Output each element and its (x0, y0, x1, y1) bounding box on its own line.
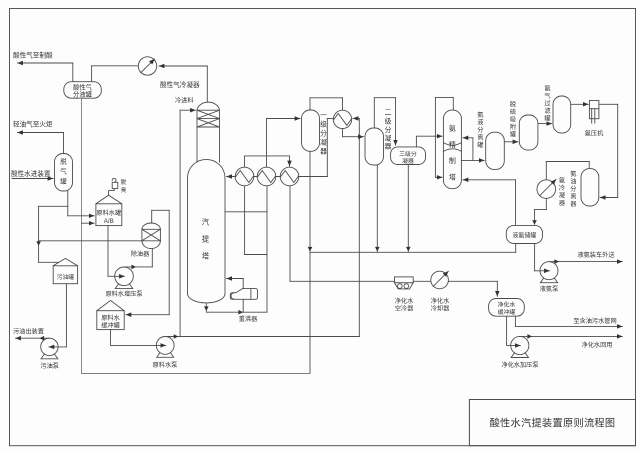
wire: exchanger row reflux line into tower (227, 176, 328, 178)
arrow: bottoms line flow right (238, 310, 243, 315)
wire: 1st stage vessel drain to condensate header (309, 151, 311, 373)
wire: condenser circle drain to 2nd stage vessel (342, 129, 344, 137)
svg-text:污油泵: 污油泵 (40, 362, 59, 370)
tower packing section with X bands (196, 110, 198, 162)
svg-text:净化水: 净化水 (395, 297, 414, 305)
wire: exchanger1 top loop to exchanger3 (244, 156, 246, 167)
raw water booster pump 原料水增压泵 (115, 267, 134, 286)
wire: exchanger2 top to 1st stage condenser vessel (266, 119, 268, 168)
svg-text:冷却器: 冷却器 (431, 304, 450, 312)
wire: condensate header (310, 251, 516, 253)
arrow: pump discharge (174, 334, 179, 339)
svg-text:缓冲罐: 缓冲罐 (101, 322, 120, 330)
svg-text:凝: 凝 (385, 134, 392, 143)
svg-text:缓冲罐: 缓冲罐 (498, 308, 516, 316)
ammonia liquid separator 氨液分离罐 (486, 132, 505, 169)
svg-text:分: 分 (477, 126, 483, 134)
wire: dirty oil out 污油出装置 (16, 337, 50, 339)
ammonia oil separator 氨油分离器 (581, 169, 599, 206)
raw water tank 原料水罐 A/B (96, 195, 122, 204)
wire: degasser tee to dirty-oil header (39, 205, 68, 207)
dirty oil tank 污油罐 (53, 258, 77, 265)
wire: separator to desulfur adsorber (504, 141, 518, 143)
arrow: booster discharge (131, 265, 136, 270)
svg-text:一: 一 (320, 113, 327, 120)
svg-text:液氨装车外送: 液氨装车外送 (577, 251, 615, 259)
wire: bottoms riser through exchanger 2 (266, 186, 268, 312)
svg-text:精: 精 (449, 140, 456, 149)
purified water buffer drum 净化水缓冲罐 (489, 299, 525, 317)
svg-text:滤: 滤 (544, 107, 550, 115)
wire: degasser bottoms down (67, 191, 69, 216)
wire: compressor discharge to oil separator (599, 103, 618, 105)
svg-text:分: 分 (320, 129, 327, 138)
svg-text:净化水回用: 净化水回用 (582, 341, 613, 349)
deoiler 除油器 (142, 223, 161, 229)
wire: 3rd stage overhead to ammonia tower (415, 136, 417, 147)
wire: cold feed riser to tower top (179, 110, 181, 336)
svg-text:凝: 凝 (320, 138, 327, 147)
svg-text:除油器: 除油器 (131, 250, 150, 258)
purified water air cooler 净化水空冷器 (395, 277, 414, 283)
svg-text:罐: 罐 (60, 177, 67, 186)
svg-text:A/B: A/B (104, 218, 114, 225)
wire: deoiler skim line to dirty oil drop (39, 240, 142, 242)
acid gas condenser 酸性气冷凝器 (138, 57, 156, 75)
stripper tower 汽提塔 : top dome (197, 102, 220, 110)
wire: adsorber to ammonia gas filter (538, 123, 552, 125)
1st stage condenser exchanger circle (333, 110, 351, 128)
feed/effluent exchanger circles (235, 167, 254, 186)
svg-text:冷: 冷 (559, 184, 565, 192)
wire: bottom return line to KO-drum drain riser (82, 373, 311, 375)
vent/deodor symbol 脱臭 (109, 189, 115, 196)
wire: tower overhead to condenser (159, 65, 207, 67)
svg-text:气: 气 (544, 92, 550, 100)
svg-text:气: 气 (60, 167, 67, 176)
svg-text:脱: 脱 (121, 178, 127, 186)
svg-text:氨: 氨 (559, 177, 565, 185)
ammonia compressor 氨压机 (589, 101, 599, 119)
ammonia gas filter 氨气过滤罐 (553, 96, 571, 133)
wire: buffer drum overflow 至含油污水管网 (514, 316, 516, 326)
svg-text:臭: 臭 (121, 186, 127, 194)
svg-text:脱: 脱 (510, 101, 516, 109)
svg-text:罐: 罐 (544, 115, 550, 123)
wire: refining tower side outlet to ammonia separator (461, 159, 484, 161)
svg-text:罐: 罐 (510, 131, 516, 139)
wire: circle1 condensate joins riser (245, 254, 267, 256)
svg-text:原料水泵: 原料水泵 (153, 361, 178, 369)
wire: into purified water buffer drum (496, 281, 498, 296)
arrow: pump discharge mid (527, 334, 532, 339)
svg-text:酸性气至制酸: 酸性气至制酸 (13, 50, 53, 59)
wire: sour water feed into degasser 酸性水进装置 (12, 178, 53, 180)
arrow: into storage drum (532, 220, 537, 225)
svg-text:分: 分 (385, 125, 392, 134)
svg-text:冷进料: 冷进料 (175, 96, 194, 104)
wire: pump discharge 净化水回用 (520, 335, 623, 337)
wire: dirty oil drop line to 污油罐 (38, 206, 40, 262)
wire: booster pump discharge up into deoiler (124, 266, 152, 268)
wire: tank drain to booster pump (107, 226, 109, 277)
svg-text:空冷器: 空冷器 (395, 304, 414, 312)
svg-text:器: 器 (559, 200, 566, 207)
wire: oil separator top to ammonia condenser (588, 162, 590, 169)
svg-text:三级分: 三级分 (399, 150, 417, 158)
svg-text:原料水增压泵: 原料水增压泵 (105, 290, 142, 298)
wire: exchanger3 drain to purified water line (289, 186, 291, 281)
svg-text:分: 分 (570, 185, 576, 193)
raw water buffer tank 原料水缓冲罐 (97, 300, 124, 310)
wire: deoiler top outlet to water buffer tank (151, 210, 153, 223)
wire: KO drum bottoms long drain down to recycle line (81, 98, 83, 373)
svg-text:酸性气冷凝器: 酸性气冷凝器 (160, 80, 200, 89)
liquid ammonia pump 液氨泵 (540, 262, 558, 280)
svg-text:离: 离 (477, 134, 483, 142)
svg-text:器: 器 (320, 148, 327, 156)
wire: vessel top loop to condenser circle (309, 98, 311, 110)
svg-text:液氨储罐: 液氨储罐 (512, 231, 536, 239)
svg-text:污油出装置: 污油出装置 (13, 328, 44, 336)
svg-text:制: 制 (449, 156, 456, 165)
purified water trim cooler 净化水冷却器 (431, 271, 449, 289)
wire: reflux branch back into tower (472, 138, 474, 161)
svg-text:器: 器 (570, 201, 577, 208)
arrow: export line mid arrow (554, 259, 559, 264)
desulfurization adsorber 脱硫吸附罐 (519, 115, 538, 150)
svg-text:原料水罐: 原料水罐 (96, 209, 121, 217)
ammonia condenser 氨冷凝器 (537, 180, 556, 199)
1st stage partial condenser vessel 一级分凝器 (302, 110, 320, 151)
wire: acid gas export line to 酸性气至制酸 (18, 62, 73, 64)
wire: KO drum drain tee to feed tank lower nozzle (82, 222, 95, 224)
svg-text:塔: 塔 (202, 252, 210, 261)
liquid ammonia storage drum 液氨储罐 (506, 225, 542, 243)
wire: buffer tank to raw water pump (110, 330, 112, 346)
tower shoulders (upper head) (188, 159, 226, 178)
wire: buffer drum to pressure pump (506, 316, 508, 345)
svg-text:污油罐: 污油罐 (57, 273, 75, 281)
wire: exchanger1 drain down to junction (244, 186, 246, 255)
wire: 2nd stage top loop to 3rd stage drum (373, 98, 375, 128)
svg-text:脱: 脱 (60, 157, 67, 166)
reboiler 重沸器 kettle (230, 289, 257, 300)
svg-text:轻油气至火炬: 轻油气至火炬 (13, 120, 53, 129)
svg-text:重沸器: 重沸器 (239, 315, 258, 323)
svg-text:硫: 硫 (510, 108, 516, 116)
wire: filter to compressor (571, 103, 589, 105)
wire: degasser offgas to flare 轻油气至火炬 (18, 132, 64, 134)
purified water pressure pump 净化水加压泵 (511, 336, 529, 354)
svg-text:附: 附 (510, 123, 516, 131)
svg-text:至含油污水管网: 至含油污水管网 (573, 317, 616, 325)
3rd stage condenser drum 三级分凝器 (391, 147, 426, 165)
wire: ammonia storage line into refining tower (463, 179, 516, 181)
title block box (469, 400, 635, 446)
wire: raw water pump discharge header (165, 336, 359, 338)
svg-text:吸: 吸 (510, 117, 516, 124)
arrow: down into dirty oil drop (36, 241, 41, 246)
wire: purified water line from exchanger3 drain to buffer drum (290, 280, 497, 282)
tower bottom head (188, 294, 226, 303)
svg-text:净化水加压泵: 净化水加压泵 (501, 361, 538, 369)
svg-text:液氨泵: 液氨泵 (540, 285, 559, 293)
wire: reboiler drain (242, 300, 244, 312)
svg-text:凝器: 凝器 (402, 157, 414, 165)
degasser drum 脱气罐 (55, 154, 73, 192)
svg-text:凝: 凝 (559, 192, 565, 200)
svg-text:氨: 氨 (544, 85, 550, 93)
tower body (187, 178, 189, 294)
ammonia refining tower 氨精制塔 (443, 110, 461, 189)
wire: ammonia condenser to storage drum (545, 198, 547, 209)
svg-text:二: 二 (385, 110, 392, 117)
svg-text:氨: 氨 (449, 124, 456, 133)
svg-text:净化水: 净化水 (431, 297, 450, 305)
wire: ammonia export 液氨装车外送 (549, 261, 622, 263)
wire: storage drum to ammonia pump (534, 244, 536, 271)
raw water pump 原料水泵 (156, 337, 174, 355)
svg-text:汽: 汽 (202, 218, 210, 227)
svg-text:罐: 罐 (477, 141, 483, 149)
svg-text:氨压机: 氨压机 (585, 130, 604, 138)
wire: 2nd stage drain to condensate header (376, 165, 378, 252)
svg-text:分液罐: 分液罐 (73, 90, 93, 99)
svg-text:酸性水进装置: 酸性水进装置 (11, 169, 51, 178)
arrow: drains down onto header (308, 247, 313, 252)
svg-text:器: 器 (385, 143, 392, 151)
2nd stage partial condenser vessel 二级分凝器 (365, 128, 384, 165)
svg-text:级: 级 (320, 120, 327, 129)
wire: reboiler vapor return into tower (242, 279, 244, 289)
svg-text:氨: 氨 (570, 170, 576, 178)
wire: degasser bottoms to feed tank upper nozzle (68, 215, 94, 217)
svg-text:级: 级 (385, 117, 392, 126)
wire: tower side nozzle to riser (225, 211, 267, 213)
wire: dirty oil tank to dirty oil pump (65, 284, 67, 347)
wire: feed riser to 1st partial condenser circle (358, 118, 360, 336)
svg-text:氨: 氨 (477, 111, 483, 119)
svg-text:油: 油 (570, 178, 576, 186)
svg-text:酸性水汽提装置原则流程图: 酸性水汽提装置原则流程图 (490, 417, 616, 430)
wire: condenser to KO drum top (91, 66, 93, 82)
wire: 3rd stage drain to condensate header (407, 165, 409, 252)
svg-text:提: 提 (202, 235, 210, 244)
acid gas KO drum 酸性气分液罐 (64, 82, 102, 99)
svg-text:离: 离 (570, 193, 576, 201)
svg-text:液: 液 (477, 119, 483, 127)
svg-text:酸性气: 酸性气 (73, 83, 93, 92)
arrow: tower bottoms down (204, 306, 209, 311)
svg-text:过: 过 (544, 100, 550, 108)
wire: tower bottoms to collection line (205, 303, 207, 311)
dirty oil pump 污油泵 (41, 338, 58, 355)
svg-text:净化水: 净化水 (498, 301, 516, 309)
svg-text:塔: 塔 (449, 173, 456, 182)
wire: vapor bypass riser to tower top (434, 97, 436, 177)
svg-text:原料水: 原料水 (101, 314, 120, 322)
